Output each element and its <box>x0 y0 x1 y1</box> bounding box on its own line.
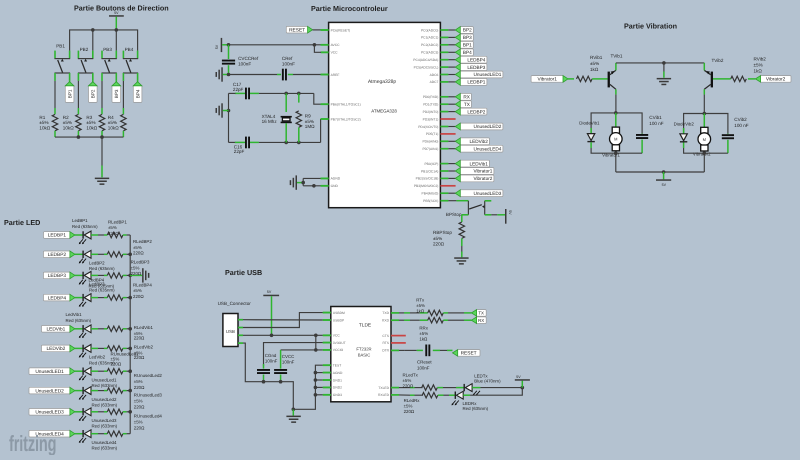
svg-text:LEDBP4: LEDBP4 <box>48 295 67 301</box>
junction bus-PB3/5V <box>115 28 119 32</box>
label LedBP3 <box>89 282 115 293</box>
svg-text:R1: R1 <box>39 115 45 120</box>
svg-text:TX: TX <box>478 311 484 316</box>
label CRef <box>282 56 295 67</box>
svg-text:UnusedLED2: UnusedLED2 <box>35 388 64 394</box>
wire 5V usb stem <box>271 296 273 335</box>
wire VCC branch <box>314 45 321 53</box>
svg-text:LEDBP2: LEDBP2 <box>48 252 67 258</box>
svg-text:220Ω: 220Ω <box>134 385 145 390</box>
node flag UnusedLED1 <box>455 71 503 78</box>
pin PD7(AIN1) <box>422 147 448 151</box>
pushbutton PB3 <box>102 47 117 81</box>
svg-text:Red (635nm): Red (635nm) <box>89 266 115 271</box>
pin TXLED <box>378 386 399 390</box>
wire RBPStop to gnd <box>461 246 463 257</box>
power 5V BPStop <box>505 209 512 224</box>
wire RLedVib1 to bus <box>123 328 130 330</box>
pin PB3(MOSI/OC2) <box>414 184 456 188</box>
svg-text:LEDVib2: LEDVib2 <box>469 139 488 144</box>
label XTAL4 <box>262 114 278 124</box>
svg-text:BP1: BP1 <box>67 89 72 98</box>
label RUnusedLed4 value <box>134 414 163 431</box>
pin PC4(ADC4/SDA) <box>413 58 448 62</box>
pin VCC <box>323 334 341 338</box>
junction motor1 top <box>614 111 618 115</box>
pin DTR <box>382 349 399 353</box>
svg-text:R4: R4 <box>108 115 114 120</box>
wire led to RLedBP1 <box>91 234 107 236</box>
wire RRx to Rx flag <box>443 319 471 321</box>
capacitor CReset 100nF <box>425 345 427 357</box>
svg-text:Red (633nm): Red (633nm) <box>92 424 118 429</box>
svg-text:±5%: ±5% <box>108 120 117 125</box>
pin PB2(SS/OC1B) <box>416 177 449 181</box>
resistor RLedVib1 220 <box>107 326 123 331</box>
svg-text:±5%: ±5% <box>754 63 763 68</box>
node flag LEDBP1 <box>455 79 487 86</box>
svg-text:220Ω: 220Ω <box>133 251 144 256</box>
pin RXLED <box>378 393 399 397</box>
junction led bus r2 <box>128 253 132 257</box>
junction xtal1-crystal <box>284 92 288 96</box>
pin PB7(XTAL2/TOSC2) <box>321 117 361 121</box>
LED UnusedLed4 <box>79 430 91 443</box>
wire Vibrator2 net <box>448 177 455 179</box>
svg-text:100nF: 100nF <box>282 359 295 364</box>
resistor R2 10k <box>76 108 81 137</box>
svg-text:BP3: BP3 <box>114 89 119 98</box>
pin AVCC <box>321 43 341 47</box>
junction motor2 bottom <box>703 151 707 155</box>
svg-text:RRx: RRx <box>419 326 428 331</box>
wire motor1 to 5V bus <box>615 153 617 172</box>
svg-text:LEDVib1: LEDVib1 <box>46 327 65 333</box>
wire RLedBP4 to bus <box>123 297 130 299</box>
capacitor C16 22pF <box>245 137 247 149</box>
node flag UnusedLED3 <box>455 190 503 197</box>
capacitor CVCCRef 100nF <box>222 45 235 75</box>
wire PB4 to R4 <box>122 81 124 108</box>
svg-text:ATMEGA328: ATMEGA328 <box>371 108 397 113</box>
label CVib2 <box>734 117 748 128</box>
svg-text:Red (633nm): Red (633nm) <box>92 446 118 451</box>
wire PB1 to R1 <box>54 81 56 108</box>
wire PB3 drop <box>115 30 117 51</box>
svg-text:CVib1: CVib1 <box>649 115 662 120</box>
junction led bus r3 <box>128 274 132 278</box>
svg-text:CVib2: CVib2 <box>734 117 747 122</box>
svg-text:±5%: ±5% <box>419 331 428 336</box>
svg-text:LEDVib1: LEDVib1 <box>469 161 488 166</box>
wire RUnusedLed1 to bus <box>123 370 130 372</box>
wire led to RLedBP4 <box>91 297 107 299</box>
wire gnd to xtal net <box>223 110 229 112</box>
svg-text:USBDM: USBDM <box>333 311 345 315</box>
transistor TVib2 <box>704 70 713 89</box>
wire TXLED to RLedTx <box>399 387 423 389</box>
pin PD4(XCK/T0) <box>418 125 448 129</box>
wire ground bus buttons <box>55 136 123 138</box>
wire BP1 net <box>448 44 455 46</box>
wire led to RLedBP3 <box>91 274 107 276</box>
wire motor1 bottom rail <box>591 148 642 153</box>
wire XTAL1 net top <box>229 93 329 104</box>
wire DTR to CReset <box>399 349 423 351</box>
svg-text:LEDBP3: LEDBP3 <box>467 65 485 70</box>
svg-text:BP2: BP2 <box>91 89 96 98</box>
power 5V rail micro <box>215 38 222 52</box>
wire RLedBP2 to bus <box>123 253 130 255</box>
svg-text:PC3(ADC3): PC3(ADC3) <box>421 51 438 55</box>
svg-text:±5%: ±5% <box>63 120 72 125</box>
connector USB <box>223 314 238 347</box>
wire 5V tx stem <box>521 381 523 388</box>
wire LEDVib1 to led <box>75 328 83 330</box>
svg-text:RUnusedLed2: RUnusedLed2 <box>134 373 163 378</box>
pin PD0(RXD) <box>423 95 449 99</box>
wire 3v3out line <box>264 343 331 366</box>
svg-text:DTR: DTR <box>382 349 389 353</box>
label R1 value <box>39 115 50 131</box>
svg-text:UnusedLed4: UnusedLed4 <box>92 440 117 445</box>
svg-text:TVib1: TVib1 <box>611 53 623 58</box>
node flag LEDVib1 <box>455 160 489 167</box>
node flag UnusedLED1 <box>29 368 75 375</box>
resistor RTx 1k <box>428 310 444 315</box>
svg-text:PD5(T1): PD5(T1) <box>426 132 438 136</box>
junction motor1 bottom <box>614 151 618 155</box>
label CVCCRef <box>238 56 259 67</box>
svg-text:RLedBP4: RLedBP4 <box>133 282 152 287</box>
label CReset <box>417 360 432 371</box>
node flag UnusedLED2 <box>29 387 75 394</box>
wire UnusedLED2 to led <box>75 390 83 392</box>
resistor R3 10k <box>99 108 104 137</box>
svg-text:1kΩ: 1kΩ <box>419 337 428 342</box>
label RVib1 value <box>590 55 603 72</box>
pin GND <box>321 184 339 188</box>
wire 5V to AVCC bus <box>222 44 228 46</box>
svg-text:PB1(OC1A): PB1(OC1A) <box>421 169 438 173</box>
ground buttons <box>95 178 109 180</box>
wire XTAL left vertical <box>228 93 230 142</box>
svg-text:5V: 5V <box>215 44 219 49</box>
pin VCC <box>321 51 339 55</box>
svg-text:BP4: BP4 <box>463 50 472 55</box>
pin PC1(ADC1) <box>421 36 448 40</box>
svg-text:UnusedLED4: UnusedLED4 <box>474 146 502 151</box>
svg-text:Partie Vibration: Partie Vibration <box>624 21 677 30</box>
svg-text:RXLED: RXLED <box>378 393 390 397</box>
svg-text:UnusedLed1: UnusedLed1 <box>92 377 117 382</box>
ground AREF rail <box>221 67 223 81</box>
junction R2-gnd <box>77 135 81 139</box>
svg-text:PD1(TXD): PD1(TXD) <box>423 103 438 107</box>
svg-text:GND1: GND1 <box>333 378 342 382</box>
wire CRef to AREF pin <box>288 74 293 76</box>
LED LedBP1 <box>79 231 91 244</box>
svg-text:fritzing: fritzing <box>9 431 56 455</box>
svg-text:Red (635nm): Red (635nm) <box>89 283 115 288</box>
junction led bus r8 <box>128 389 132 393</box>
ground BPStop <box>454 257 468 259</box>
svg-text:10kΩ: 10kΩ <box>86 125 97 130</box>
svg-text:RESET: RESET <box>461 351 477 357</box>
label C16 <box>234 144 245 154</box>
wire PB2 drop <box>92 30 94 51</box>
label CVCC <box>282 354 295 365</box>
svg-text:LedBP2: LedBP2 <box>89 261 105 266</box>
pushbutton PB2 <box>78 47 93 81</box>
wire RXD to RRx <box>399 319 428 321</box>
pin PB0(ICP) <box>424 162 448 166</box>
svg-text:100 nF: 100 nF <box>649 121 663 126</box>
wire LEDVib1 net <box>448 163 455 165</box>
pin PB6(XTAL1/TOSC1) <box>321 103 361 107</box>
node flag LEDVib2 <box>455 138 489 145</box>
svg-text:UnusedLED3: UnusedLED3 <box>35 410 64 416</box>
svg-text:Partie Microcontroleur: Partie Microcontroleur <box>311 4 388 13</box>
pin PD2(INT0) <box>423 110 449 114</box>
svg-text:±5%: ±5% <box>403 378 412 383</box>
node flag BP4 <box>455 49 473 56</box>
svg-text:220Ω: 220Ω <box>108 231 119 236</box>
node flag RESET <box>286 26 312 33</box>
svg-text:RESET: RESET <box>289 27 305 33</box>
svg-text:RUnusedLed4: RUnusedLed4 <box>134 414 163 419</box>
label RLedTx value <box>403 373 419 389</box>
svg-text:RVib2: RVib2 <box>754 57 767 62</box>
wire AREF bus <box>229 74 278 76</box>
svg-text:R2: R2 <box>63 115 69 120</box>
svg-text:M: M <box>703 137 706 142</box>
svg-text:220Ω: 220Ω <box>134 405 145 410</box>
svg-text:PC2(ADC2): PC2(ADC2) <box>421 43 438 47</box>
LED LedVib1 <box>79 325 91 338</box>
svg-text:Red (635nm): Red (635nm) <box>66 318 92 323</box>
op-amp U2 FT232R body <box>331 307 391 402</box>
junction 5V vib <box>662 170 666 174</box>
wire TEST gnd bus <box>293 365 331 409</box>
svg-text:PD4(XCK/T0): PD4(XCK/T0) <box>418 125 438 129</box>
svg-text:R3: R3 <box>86 115 92 120</box>
svg-text:RLedRx: RLedRx <box>404 398 421 403</box>
resistor RLedRx 220 <box>422 393 438 398</box>
pin USBDM <box>323 311 345 315</box>
svg-text:UnusedLED1: UnusedLED1 <box>35 369 64 375</box>
LED UnusedLed3 <box>79 408 91 421</box>
svg-text:PB2: PB2 <box>80 47 89 52</box>
LED UnusedLed1 <box>79 367 91 380</box>
wire 5V to bus <box>115 17 117 30</box>
wire gnd stem vib <box>663 63 665 78</box>
wire RTx to Tx flag <box>443 312 471 314</box>
node flag UnusedLED3 <box>29 409 75 416</box>
wire BP3 net <box>448 36 455 38</box>
wire RLedVib2 to bus <box>123 347 130 349</box>
svg-text:PB0(ICP): PB0(ICP) <box>424 162 438 166</box>
ground vibration <box>657 78 671 80</box>
pin CTS <box>382 334 405 338</box>
label RLedBP4 value <box>133 282 152 299</box>
label RUnusedLed2 value <box>134 373 163 390</box>
pin PD6(AIN0) <box>422 140 448 144</box>
wire LEDVib2 net <box>448 140 455 142</box>
wire RX net <box>448 96 455 98</box>
capacitor CRef 100nF <box>282 69 284 81</box>
wire led to RLedVib1 <box>91 328 107 330</box>
resistor RLedTx 220 <box>422 385 438 390</box>
resistor RRx 1k <box>428 318 444 323</box>
junction led bus r5 <box>128 327 132 331</box>
capacitor CVib1 100nF <box>636 134 648 154</box>
junction AVCC-VCC <box>313 43 317 47</box>
wire gnd to AGND/GND <box>297 178 329 185</box>
node flag BP4 <box>133 81 142 103</box>
svg-text:RUnusedLed3: RUnusedLed3 <box>134 393 163 398</box>
wire flag to RVib1 <box>568 78 574 80</box>
node flag LEDVib2 <box>42 345 75 352</box>
junction 5V-CVCCRef <box>227 43 231 47</box>
wire motor1 feed <box>615 113 617 127</box>
label R4 value <box>108 115 119 131</box>
svg-text:PB4: PB4 <box>125 47 134 52</box>
svg-text:PC6(RESET): PC6(RESET) <box>331 28 351 32</box>
wire top gnd bus vib <box>616 62 704 64</box>
label RLedBP3 value <box>131 260 150 277</box>
svg-text:PD3(INT1): PD3(INT1) <box>423 117 439 121</box>
svg-text:Red (635nm): Red (635nm) <box>463 406 489 411</box>
svg-text:5V: 5V <box>508 210 512 215</box>
pin AGND <box>323 371 343 375</box>
label RUnusedLed1 value <box>111 352 140 367</box>
svg-text:CRef: CRef <box>282 56 293 61</box>
wire RLedBP1 to bus <box>123 234 130 236</box>
svg-text:PB5(SCK): PB5(SCK) <box>423 199 438 203</box>
label RVib2 value <box>754 57 767 74</box>
wire PB5 to BPStop <box>448 200 468 202</box>
pin USB 3 <box>238 334 243 336</box>
motor Vibrator1 <box>610 127 623 151</box>
wire TVib1 emitter down <box>615 89 617 113</box>
svg-text:RLedTx: RLedTx <box>403 373 419 378</box>
svg-text:ADC6: ADC6 <box>430 73 439 77</box>
label UnusedLed2 <box>92 397 118 408</box>
junction ledtx 5V <box>521 386 525 390</box>
wire TX net <box>448 103 455 105</box>
junction gnd3 usb <box>314 393 318 397</box>
power 5V vibration <box>656 179 671 187</box>
wire UnusedLED4 net <box>448 148 455 150</box>
resistor RVib1 1k <box>577 76 593 81</box>
junction gnd1 usb <box>314 378 318 382</box>
pin PD3(INT1) <box>423 117 456 121</box>
svg-text:RLedBP2: RLedBP2 <box>133 239 152 244</box>
svg-text:VCC: VCC <box>333 334 341 338</box>
node flag BP2 <box>89 81 98 103</box>
transistor TVib1 <box>608 70 616 89</box>
svg-text:VCC: VCC <box>331 51 339 55</box>
wire 5V bus vibration <box>616 171 705 173</box>
svg-text:PB4(MISO): PB4(MISO) <box>422 192 439 196</box>
node flag BP3 <box>112 81 121 103</box>
svg-text:RVib1: RVib1 <box>590 55 603 60</box>
ground LED section <box>142 268 144 282</box>
svg-text:TX: TX <box>464 102 471 107</box>
node flag Rx <box>471 317 486 324</box>
wire gnd tip usb <box>292 409 294 415</box>
wire top 5V bus <box>70 30 138 51</box>
svg-text:100nF: 100nF <box>282 61 295 66</box>
svg-text:220Ω: 220Ω <box>433 242 445 247</box>
svg-text:220Ω: 220Ω <box>404 409 415 414</box>
svg-text:TLDE: TLDE <box>359 323 371 329</box>
svg-text:DiodeVib1: DiodeVib1 <box>579 120 600 125</box>
resistor RLedBP2 220 <box>107 252 123 257</box>
node flag UnusedLED4 <box>29 430 75 437</box>
pin PC3(ADC3) <box>421 51 448 55</box>
svg-text:±5%: ±5% <box>134 399 143 404</box>
capacitor C17 22pF <box>245 88 247 100</box>
wire PB2 to R2 <box>77 81 79 108</box>
svg-text:TXLED: TXLED <box>378 386 389 390</box>
svg-text:GND2: GND2 <box>333 386 342 390</box>
svg-text:UnusedLED1: UnusedLED1 <box>474 72 502 77</box>
svg-text:22pF: 22pF <box>233 87 244 92</box>
svg-text:R9: R9 <box>305 114 311 119</box>
svg-text:220Ω: 220Ω <box>133 294 144 299</box>
node flag BP3 <box>455 34 473 41</box>
label RLedBP1 value <box>108 219 127 236</box>
wire RVib1 to TVib1 base <box>592 78 608 80</box>
svg-text:BP3: BP3 <box>463 35 472 40</box>
pin GND2 <box>323 386 342 390</box>
svg-text:16 Mhz: 16 Mhz <box>262 119 278 124</box>
wire vcc to vccio <box>315 335 317 350</box>
node flag LEDVib1 <box>42 326 75 333</box>
diode DiodeVib2 <box>680 128 687 148</box>
junction motor2 top <box>703 112 707 116</box>
wire RUnusedLed2 to bus <box>123 390 130 392</box>
node flag Tx <box>471 310 486 317</box>
resistor R1 10k <box>52 108 57 137</box>
resistor RUnusedLed3 220 <box>107 409 123 414</box>
svg-text:PB1: PB1 <box>56 44 65 49</box>
svg-text:PD6(AIN0): PD6(AIN0) <box>422 140 438 144</box>
svg-text:LedBP4: LedBP4 <box>89 278 105 283</box>
label R9 value <box>305 114 315 130</box>
label RLedRx value <box>404 398 421 414</box>
svg-text:±5%: ±5% <box>416 303 425 308</box>
resistor RLedVib2 220 <box>107 346 123 351</box>
svg-text:LEDBP4: LEDBP4 <box>467 57 485 62</box>
svg-text:10kΩ: 10kΩ <box>39 125 50 130</box>
svg-text:BP4: BP4 <box>135 89 140 98</box>
pin TEST <box>323 364 341 368</box>
label LEDTx <box>474 374 501 384</box>
wire RUnusedLed3 to bus <box>123 411 130 413</box>
junction AREF bus <box>227 73 231 77</box>
pin PB1(OC1A) <box>421 169 448 173</box>
junction cgnd bottom <box>262 380 266 384</box>
label UnusedLed1 <box>92 377 118 388</box>
svg-text:100 nF: 100 nF <box>734 123 748 128</box>
svg-text:5V: 5V <box>114 11 119 15</box>
label R3 value <box>86 115 97 131</box>
svg-text:RXD: RXD <box>382 319 390 323</box>
wire LEDBP3 net <box>448 66 455 68</box>
